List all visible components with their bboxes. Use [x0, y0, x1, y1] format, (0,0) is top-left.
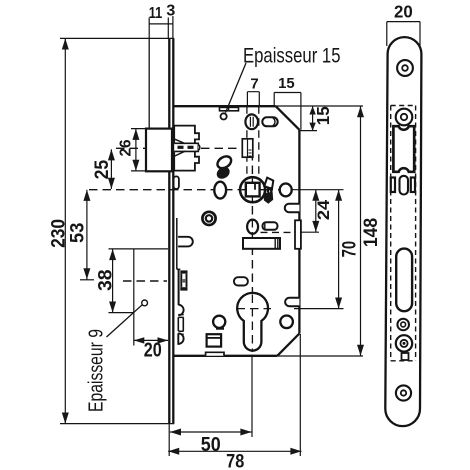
dim 7 line with ticks — [247, 92, 259, 107]
vertical pill below latch window — [400, 176, 409, 195]
faceplate front-view top edge + 230 top extension line — [60, 37, 174, 39]
wire: vertical dashed line x246.9 (7-dim left) — [246, 106, 248, 178]
ring / bushing — [202, 212, 215, 225]
case top extension line to 148 dim — [276, 105, 363, 107]
follower square — [246, 183, 260, 197]
dim 11/3 line — [149, 23, 173, 25]
wire: faceplate extension down to 50/78 dims — [168, 424, 170, 456]
dim 26 arrow bottom — [132, 160, 139, 171]
svg-text:78: 78 — [226, 451, 244, 470]
svg-text:20: 20 — [144, 340, 162, 362]
svg-text:24: 24 — [314, 199, 333, 220]
dim 24 arrows — [312, 190, 319, 232]
dim 148 arrows — [357, 106, 364, 356]
dim 38 arrow top — [109, 249, 116, 260]
deadbolt mid section — [178, 317, 183, 331]
deadbolt guide vertical line — [176, 218, 178, 269]
dim 38 arrow bottom — [109, 302, 116, 313]
faceplate inner thick line — [168, 38, 170, 423]
dim 15 (top) line with ticks — [274, 93, 301, 130]
case top-right chamfer — [276, 106, 300, 130]
deadbolt bobbin rails — [181, 274, 186, 288]
deadbolt guide step — [177, 268, 181, 270]
case bottom-right chamfer — [277, 334, 299, 356]
dim 70 line — [338, 190, 340, 309]
oval hole left of follower — [214, 182, 226, 199]
retainer box mark — [207, 334, 222, 346]
dim 38 extension top — [109, 248, 169, 250]
top screw inner — [402, 65, 408, 71]
clip circle — [221, 113, 227, 119]
latch spring dark segment 1 — [178, 146, 184, 149]
cam bottom wedge filled — [263, 192, 273, 204]
dim 70 arrows — [335, 190, 342, 309]
dim 38 extension bottom — [109, 312, 134, 314]
bottom screw circle — [396, 385, 411, 400]
D-pill right of oval — [263, 222, 278, 230]
small circle right of cylinder — [280, 316, 293, 329]
retainer box divider — [207, 337, 222, 339]
bottom screw inner — [401, 390, 406, 395]
small square below — [402, 353, 409, 360]
leader circle Epaisseur 9 — [142, 300, 148, 306]
euro cylinder profile — [237, 293, 268, 351]
wire: case right edge extension down to 78 dim — [299, 334, 301, 456]
small mechanism rect below oval — [242, 139, 253, 157]
svg-text:Epaisseur 9: Epaisseur 9 — [85, 329, 107, 412]
lower circle dot — [403, 343, 405, 345]
wire: vertical center axis dashed through follower and cylinder — [251, 152, 253, 356]
dim 53 arrow top — [83, 190, 90, 201]
pill inner cap line — [273, 118, 275, 126]
case right edge — [298, 130, 300, 334]
tilted black blob (spring detail) — [214, 165, 231, 182]
dim 53 line — [86, 190, 88, 280]
wire: deadbolt axis dashed — [123, 280, 167, 282]
latch spring rod channel — [174, 143, 198, 151]
deadbolt bump 2 — [178, 333, 183, 344]
faceplate outer thick line — [172, 38, 174, 423]
dim 25 arrow bottom — [108, 178, 115, 189]
dim 15 chamfer arrows — [309, 106, 315, 131]
wire: latch axis dashed centerline left — [116, 147, 146, 149]
horizontal bar below — [243, 238, 280, 249]
wire: cylinder horizontal axis dashed — [236, 308, 269, 310]
svg-text:25: 25 — [92, 159, 113, 179]
svg-text:20: 20 — [394, 2, 413, 22]
svg-text:38: 38 — [96, 269, 117, 291]
cam center dots — [268, 187, 271, 193]
svg-text:53: 53 — [67, 223, 89, 243]
dim 26 line — [135, 129, 137, 171]
latch bolt head — [146, 129, 172, 172]
latch tail bottom block — [174, 151, 199, 170]
deadbolt bump 1 — [178, 305, 183, 316]
construction line x133.6 — [133, 249, 135, 346]
latch funnel diagonal top — [175, 139, 185, 143]
lower circle mid ring — [400, 340, 407, 347]
dim 148 line — [360, 106, 362, 356]
dim 50 line — [170, 431, 252, 433]
small circle left of cylinder — [213, 316, 225, 328]
vertical oval on axis below follower — [247, 220, 258, 234]
small bar above retainer — [216, 328, 224, 330]
second screw circle — [396, 109, 413, 126]
deadbolt bobbin middle ticks — [183, 280, 186, 282]
faceplate front-view bottom edge + 230 bottom extension line — [60, 423, 174, 425]
dim 24 line — [315, 190, 317, 232]
deadbolt guide lower line — [178, 269, 180, 305]
Epaisseur 15 clip bracket on case top — [220, 107, 239, 110]
dim 15 (right chamfer) line — [312, 106, 314, 131]
svg-text:7: 7 — [250, 76, 258, 93]
wire: center axis solid extension below case to 50 dim — [251, 356, 253, 437]
dim 38 line — [112, 249, 114, 313]
dim 230 line — [64, 38, 66, 423]
oval screw hole top (with slot) — [245, 114, 258, 129]
dim 53 arrow bottom — [83, 268, 90, 279]
side dashed window rect — [391, 106, 416, 361]
dim 26 extension lines — [131, 129, 146, 171]
dim 230 arrow bottom — [62, 413, 69, 424]
pill slot right of oval — [262, 117, 277, 126]
second screw inner — [401, 114, 407, 120]
svg-text:3: 3 — [166, 2, 175, 19]
svg-text:15: 15 — [278, 75, 295, 92]
wire: axis dashes inside cylinder — [251, 295, 253, 353]
small circle below deadbolt window — [397, 319, 409, 331]
svg-text:70: 70 — [338, 241, 360, 258]
ring inner — [206, 215, 212, 221]
dim 25 line — [110, 149, 112, 189]
faceplate inner thin line (11mm offset) — [148, 38, 150, 128]
top screw circle — [397, 60, 413, 76]
follower (square spindle hub) circle — [240, 177, 265, 202]
dim 20 (left) line — [134, 339, 168, 341]
deadbolt bobbin top cap — [180, 270, 187, 273]
wire: latch axis dashed centerline right — [201, 147, 240, 149]
deadbolt separator bars 1 — [178, 315, 183, 318]
dim 53 bottom tick — [80, 279, 94, 281]
latch rod end cap — [198, 145, 199, 151]
svg-text:148: 148 — [360, 218, 382, 247]
pill slot at right edge y208 — [285, 204, 300, 213]
mechanism rect center line — [247, 139, 249, 157]
case bottom extension line to 148 dim — [277, 355, 363, 357]
latch tail top block — [174, 126, 199, 144]
clip inner slit — [228, 107, 230, 110]
wire: horizontal axis dashes inside cylinder — [237, 308, 272, 310]
mechanism rect ticks — [249, 150, 252, 156]
dim 15 chamfer bottom extension — [299, 130, 317, 132]
leader line Epaisseur 9 — [107, 305, 143, 337]
leader line from Epaisseur 15 — [226, 63, 247, 113]
deadbolt window (stadium) — [396, 249, 412, 312]
wire: cylinder axis extension to 70 dim — [294, 308, 344, 310]
wire: crosshair ticks inside follower — [242, 179, 264, 201]
deadbolt bobbin bottom cap — [180, 287, 187, 290]
wire: vertical dashed line x258.8 (7-dim right) — [258, 106, 260, 178]
dim 20 (top right) line with ticks — [387, 22, 420, 46]
small circle inner — [401, 322, 406, 327]
D-pill left cap line — [264, 223, 266, 230]
dim 26 arrow top — [132, 129, 139, 140]
wire: follower axis solid extension to 24/70 dims — [287, 189, 344, 191]
deadbolt pill lever — [178, 237, 193, 247]
latch spring dark segment 2 — [188, 146, 194, 149]
svg-text:50: 50 — [201, 434, 221, 456]
latch window (spool shaped) — [393, 126, 414, 172]
pill slot at right edge y302 — [285, 298, 299, 306]
step on case bottom — [206, 352, 224, 356]
tilted white ellipse (spring detail) — [215, 154, 233, 171]
dim 78 line — [168, 450, 301, 452]
svg-text:11: 11 — [149, 5, 163, 22]
slot inside oval — [250, 117, 253, 127]
screw hole circle right of follower — [280, 184, 292, 197]
wire: 24-dim bottom extension — [294, 231, 319, 233]
wire: follower axis dashed centerline — [89, 189, 287, 191]
side plate outline — [385, 37, 421, 426]
latch funnel diagonal bottom — [175, 151, 185, 156]
svg-text:15: 15 — [313, 106, 333, 125]
dim 25 arrow top — [108, 149, 115, 160]
lock case top edge — [173, 105, 275, 107]
dim 20 left arrow — [134, 337, 145, 343]
bar inner vertical line — [275, 238, 278, 249]
dim 11/3 extension lines — [149, 16, 173, 38]
dim 78 arrows — [168, 448, 301, 455]
svg-text:Epaisseur 15: Epaisseur 15 — [243, 45, 341, 68]
wire: axis dash inside oval below follower — [251, 221, 253, 234]
lower circle — [396, 335, 412, 351]
deadbolt separator bars 2 — [178, 331, 183, 334]
notch at case right edge — [295, 220, 301, 249]
dim 20 right arrow — [158, 337, 169, 343]
case bottom edge — [173, 355, 277, 357]
pill slot above cylinder — [234, 277, 248, 285]
follower square inner tick — [254, 184, 256, 190]
aux slot right of faceplate — [174, 176, 179, 189]
small rect left below latch window — [391, 178, 395, 193]
dim 50 arrows — [170, 429, 252, 436]
dim 230 arrow top — [62, 38, 69, 49]
wire: side hole axis dashed y232 — [249, 231, 294, 233]
svg-text:26: 26 — [117, 139, 134, 156]
cam top wedge — [264, 178, 273, 189]
small rect right below latch window — [411, 178, 415, 193]
